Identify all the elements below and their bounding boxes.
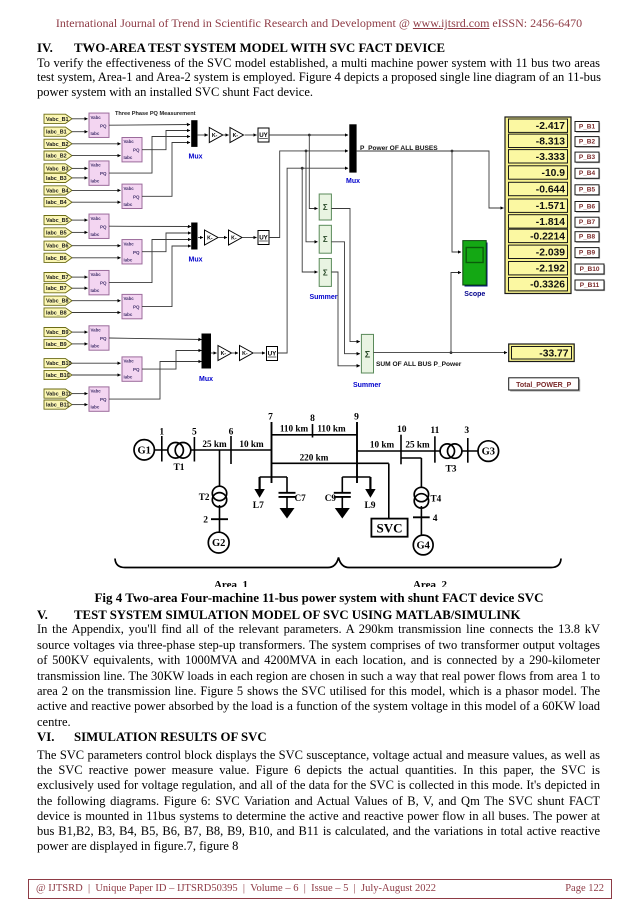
svg-text:Three Phase PQ Measurement: Three Phase PQ Measurement bbox=[115, 111, 196, 117]
svg-text:Mux: Mux bbox=[189, 154, 203, 161]
svg-text:-10.9: -10.9 bbox=[542, 168, 566, 179]
svg-text:PQ: PQ bbox=[133, 194, 140, 199]
svg-text:Vabc_B1: Vabc_B1 bbox=[46, 117, 68, 123]
svg-text:SVC: SVC bbox=[376, 520, 402, 535]
svg-text:Iabc: Iabc bbox=[124, 202, 133, 207]
svg-text:PQ: PQ bbox=[133, 367, 140, 372]
svg-text:Iabc_B10: Iabc_B10 bbox=[46, 373, 70, 379]
svg-text:P_B7: P_B7 bbox=[579, 219, 596, 226]
svg-text:PQ: PQ bbox=[100, 171, 107, 176]
svg-text:Iabc: Iabc bbox=[91, 344, 100, 349]
svg-text:-1.571: -1.571 bbox=[536, 201, 565, 212]
svg-text:Iabc: Iabc bbox=[124, 155, 133, 160]
svg-text:P_B9: P_B9 bbox=[579, 249, 596, 256]
svg-text:Vabc: Vabc bbox=[91, 216, 102, 221]
svg-text:25 km: 25 km bbox=[202, 439, 227, 449]
svg-text:Vabc_B5: Vabc_B5 bbox=[46, 218, 68, 224]
svg-text:1: 1 bbox=[159, 428, 164, 438]
svg-text:Σ: Σ bbox=[323, 268, 328, 277]
svg-text:Vabc: Vabc bbox=[124, 186, 135, 191]
svg-text:Iabc_B3: Iabc_B3 bbox=[46, 176, 67, 182]
svg-text:Iabc: Iabc bbox=[124, 312, 133, 317]
svg-text:Vabc: Vabc bbox=[91, 389, 102, 394]
svg-text:PQ: PQ bbox=[133, 305, 140, 310]
svg-text:G4: G4 bbox=[416, 541, 430, 552]
svg-text:Iabc: Iabc bbox=[91, 131, 100, 136]
svg-text:2: 2 bbox=[203, 516, 208, 526]
svg-text:Iabc_B2: Iabc_B2 bbox=[46, 154, 67, 160]
svg-text:Vabc: Vabc bbox=[124, 359, 135, 364]
svg-text:G1: G1 bbox=[137, 445, 150, 456]
svg-text:Iabc: Iabc bbox=[91, 288, 100, 293]
svg-text:110 km: 110 km bbox=[317, 424, 346, 434]
svg-text:P_B10: P_B10 bbox=[580, 266, 600, 273]
svg-text:220 km: 220 km bbox=[300, 452, 329, 462]
svg-text:9: 9 bbox=[354, 413, 359, 423]
svg-text:-0.644: -0.644 bbox=[536, 185, 565, 196]
svg-text:K-: K- bbox=[231, 236, 237, 242]
svg-text:Σ: Σ bbox=[323, 235, 328, 244]
svg-text:L9: L9 bbox=[364, 501, 375, 511]
svg-text:Vabc: Vabc bbox=[91, 272, 102, 277]
svg-text:10 km: 10 km bbox=[239, 439, 264, 449]
svg-text:P_B8: P_B8 bbox=[579, 234, 596, 241]
svg-text:-0.3326: -0.3326 bbox=[530, 280, 565, 291]
svg-text:Iabc: Iabc bbox=[91, 232, 100, 237]
svg-text:Iabc_B5: Iabc_B5 bbox=[46, 230, 67, 236]
svg-text:T2: T2 bbox=[199, 492, 210, 502]
svg-text:P_B4: P_B4 bbox=[579, 170, 596, 177]
svg-text:Iabc_B9: Iabc_B9 bbox=[46, 342, 67, 348]
svg-text:Iabc: Iabc bbox=[91, 179, 100, 184]
svg-text:UY: UY bbox=[259, 235, 268, 242]
svg-text:Vabc: Vabc bbox=[124, 241, 135, 246]
svg-text:PQ: PQ bbox=[100, 336, 107, 341]
svg-text:6: 6 bbox=[229, 428, 234, 438]
svg-text:Iabc: Iabc bbox=[91, 405, 100, 410]
svg-text:Vabc: Vabc bbox=[91, 163, 102, 168]
svg-text:PQ: PQ bbox=[100, 281, 107, 286]
svg-text:25 km: 25 km bbox=[405, 440, 430, 450]
svg-text:L7: L7 bbox=[253, 501, 264, 511]
svg-text:Iabc: Iabc bbox=[124, 375, 133, 380]
svg-text:10 km: 10 km bbox=[370, 440, 395, 450]
svg-text:-3.333: -3.333 bbox=[536, 152, 565, 163]
svg-text:Vabc_B6: Vabc_B6 bbox=[46, 244, 68, 250]
svg-text:P_Power OF ALL BUSES: P_Power OF ALL BUSES bbox=[360, 145, 438, 152]
svg-text:P_B6: P_B6 bbox=[579, 203, 596, 210]
svg-text:-8.313: -8.313 bbox=[536, 136, 565, 147]
svg-text:P_B2: P_B2 bbox=[579, 138, 596, 145]
svg-text:P_B11: P_B11 bbox=[580, 282, 600, 289]
svg-text:Vabc_B11: Vabc_B11 bbox=[46, 392, 71, 398]
svg-text:4: 4 bbox=[433, 514, 438, 524]
svg-text:P_B1: P_B1 bbox=[579, 123, 596, 130]
svg-text:-33.77: -33.77 bbox=[539, 349, 568, 360]
svg-text:P_B5: P_B5 bbox=[579, 187, 596, 194]
svg-text:Summer: Summer bbox=[353, 382, 381, 389]
svg-text:T1: T1 bbox=[173, 463, 184, 473]
svg-text:Σ: Σ bbox=[365, 350, 371, 360]
svg-text:K-: K- bbox=[212, 133, 218, 139]
svg-text:Area_2: Area_2 bbox=[413, 579, 448, 587]
svg-text:Summer: Summer bbox=[309, 294, 337, 301]
svg-text:-1.814: -1.814 bbox=[536, 217, 565, 228]
svg-text:Total_POWER_P: Total_POWER_P bbox=[516, 382, 571, 389]
svg-text:Iabc_B1: Iabc_B1 bbox=[46, 130, 67, 136]
svg-text:G2: G2 bbox=[212, 538, 225, 549]
svg-text:UY: UY bbox=[259, 132, 268, 139]
svg-text:Σ: Σ bbox=[323, 203, 328, 212]
svg-text:SUM OF ALL BUS P_Power: SUM OF ALL BUS P_Power bbox=[376, 361, 462, 368]
svg-text:Vabc: Vabc bbox=[91, 115, 102, 120]
svg-text:Iabc_B11: Iabc_B11 bbox=[46, 403, 69, 409]
svg-text:Scope: Scope bbox=[464, 291, 485, 298]
svg-text:Vabc_B4: Vabc_B4 bbox=[46, 188, 68, 194]
svg-text:Vabc: Vabc bbox=[91, 328, 102, 333]
svg-text:5: 5 bbox=[192, 428, 197, 438]
svg-text:K-: K- bbox=[233, 133, 239, 139]
svg-text:110 km: 110 km bbox=[280, 424, 309, 434]
svg-text:T3: T3 bbox=[445, 465, 456, 475]
svg-text:8: 8 bbox=[310, 414, 315, 424]
svg-text:10: 10 bbox=[397, 425, 407, 435]
svg-text:UY: UY bbox=[268, 351, 277, 358]
svg-text:3: 3 bbox=[464, 426, 469, 436]
svg-text:Iabc: Iabc bbox=[124, 257, 133, 262]
svg-text:Vabc: Vabc bbox=[124, 139, 135, 144]
svg-text:Vabc_B10: Vabc_B10 bbox=[46, 361, 71, 367]
svg-text:PQ: PQ bbox=[133, 250, 140, 255]
svg-text:K-: K- bbox=[221, 351, 227, 357]
svg-text:Iabc_B7: Iabc_B7 bbox=[46, 286, 67, 292]
svg-text:Iabc_B4: Iabc_B4 bbox=[46, 200, 67, 206]
svg-text:Vabc_B9: Vabc_B9 bbox=[46, 330, 68, 336]
svg-text:Vabc_B7: Vabc_B7 bbox=[46, 275, 68, 281]
svg-text:Iabc_B8: Iabc_B8 bbox=[46, 311, 67, 317]
svg-text:-2.039: -2.039 bbox=[536, 247, 565, 258]
svg-text:-2.417: -2.417 bbox=[536, 121, 565, 132]
svg-text:PQ: PQ bbox=[100, 123, 107, 128]
svg-text:C7: C7 bbox=[295, 493, 307, 503]
svg-text:-2.192: -2.192 bbox=[536, 264, 565, 275]
svg-text:P_B3: P_B3 bbox=[579, 154, 596, 161]
svg-text:Mux: Mux bbox=[199, 376, 213, 383]
svg-text:Vabc: Vabc bbox=[124, 296, 135, 301]
svg-text:-0.2214: -0.2214 bbox=[530, 231, 565, 242]
svg-text:K-: K- bbox=[207, 236, 213, 242]
svg-text:G3: G3 bbox=[482, 447, 495, 458]
svg-text:PQ: PQ bbox=[100, 397, 107, 402]
svg-text:T4: T4 bbox=[431, 494, 442, 504]
svg-text:Vabc_B2: Vabc_B2 bbox=[46, 142, 68, 148]
svg-text:Mux: Mux bbox=[346, 178, 360, 185]
svg-text:Iabc_B6: Iabc_B6 bbox=[46, 256, 67, 262]
svg-text:C9: C9 bbox=[325, 493, 337, 503]
svg-text:Mux: Mux bbox=[189, 257, 203, 264]
svg-text:Vabc_B3: Vabc_B3 bbox=[46, 166, 68, 172]
svg-text:7: 7 bbox=[268, 413, 273, 423]
svg-text:K-: K- bbox=[242, 351, 248, 357]
svg-text:Vabc_B8: Vabc_B8 bbox=[46, 299, 68, 305]
svg-text:PQ: PQ bbox=[133, 148, 140, 153]
svg-text:Area_1: Area_1 bbox=[214, 579, 248, 587]
svg-text:11: 11 bbox=[430, 426, 439, 436]
svg-text:PQ: PQ bbox=[100, 224, 107, 229]
